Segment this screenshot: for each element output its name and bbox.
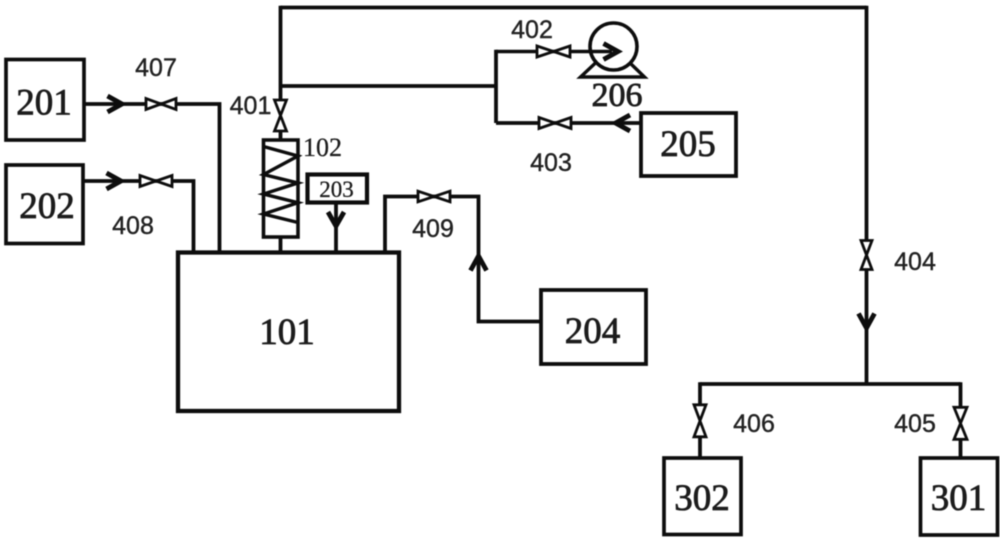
wire from 202 with corner down	[83, 181, 194, 253]
svg-text:405: 405	[894, 410, 936, 438]
box 302	[664, 458, 741, 535]
valve 408	[140, 176, 172, 187]
valve 409	[418, 191, 450, 202]
svg-text:205: 205	[660, 124, 716, 165]
wire branch horizontal to 302 and 301	[700, 382, 961, 386]
svg-text:102: 102	[303, 133, 342, 162]
wire horizontal y86	[281, 84, 497, 88]
coil 102 zigzag	[264, 147, 299, 223]
valve 403	[539, 118, 571, 129]
wire vertical x496	[494, 50, 498, 123]
wire 403 horizontal	[496, 121, 641, 125]
svg-text:101: 101	[259, 312, 315, 353]
box 301	[921, 458, 998, 535]
svg-text:409: 409	[412, 215, 454, 243]
coil 102 body	[264, 140, 299, 237]
pump 206 circle	[590, 23, 637, 70]
box 205	[641, 113, 736, 176]
tank 101	[178, 253, 399, 412]
svg-text:302: 302	[674, 478, 730, 519]
wire 409 path from tank to 204	[385, 197, 541, 322]
wire coil to tank	[279, 237, 283, 253]
svg-text:204: 204	[565, 311, 621, 352]
arrow up on 409 right segment	[471, 256, 487, 271]
svg-text:403: 403	[530, 149, 572, 177]
arrow left into 403 from 205	[616, 115, 631, 131]
wire from 201 with corner down	[84, 104, 220, 253]
valve 406 (vertical)	[694, 405, 706, 437]
wire vertical x280 to valve 401	[279, 6, 283, 101]
valve 404 (vertical)	[861, 241, 872, 270]
pump 206 pedestal	[581, 47, 645, 78]
svg-text:203: 203	[319, 177, 354, 202]
box 201	[6, 60, 84, 141]
svg-text:401: 401	[230, 92, 272, 120]
arrow right after 201	[108, 96, 123, 112]
box 204	[541, 290, 646, 364]
valve 402	[537, 46, 570, 57]
box 203	[308, 175, 368, 203]
wire 301 drop	[959, 382, 963, 458]
arrow right after 202	[107, 173, 122, 189]
svg-text:301: 301	[931, 478, 987, 519]
valve 407	[146, 99, 176, 110]
arrow right inside pump	[604, 44, 619, 60]
svg-text:206: 206	[592, 77, 643, 114]
wire 402 into pump	[496, 50, 612, 54]
svg-text:402: 402	[511, 16, 553, 44]
valve 405 (vertical)	[954, 407, 967, 439]
wire 302 drop	[698, 382, 702, 458]
svg-text:408: 408	[112, 212, 154, 240]
svg-text:202: 202	[19, 186, 75, 227]
svg-text:406: 406	[733, 410, 775, 438]
arrow down on 404 line	[859, 314, 875, 329]
wire top horizontal	[281, 6, 867, 10]
wire right vertical upper (to valve 404)	[865, 6, 869, 241]
valve 401 (vertical)	[275, 100, 287, 131]
wire 203 down to tank	[334, 203, 338, 253]
box 202	[6, 165, 83, 244]
wire right vertical lower (valve 404 to branch)	[865, 270, 869, 385]
svg-text:407: 407	[135, 54, 177, 82]
arrow down below 203	[328, 212, 344, 226]
svg-text:404: 404	[894, 248, 936, 276]
wire valve401 to coil	[279, 131, 283, 141]
svg-text:201: 201	[16, 83, 72, 124]
